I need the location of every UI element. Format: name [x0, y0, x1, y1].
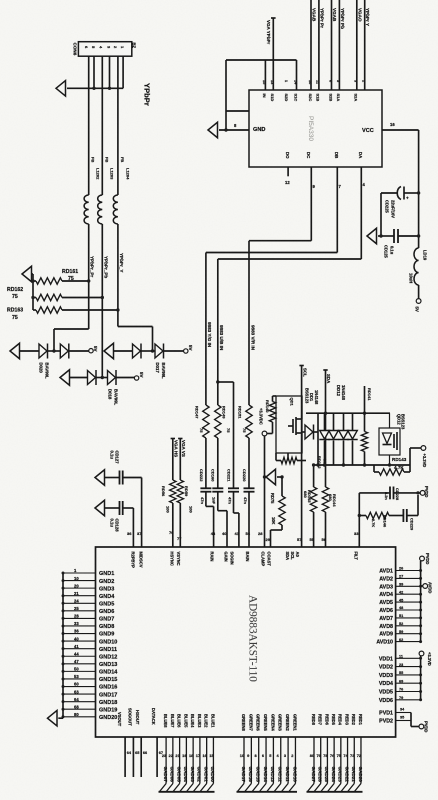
junction RD162: [31, 296, 104, 299]
capacitor CD125: [384, 229, 419, 258]
wire RD151 down: [248, 438, 250, 488]
capacitor CD229: [389, 491, 420, 531]
wire BAIN down: [246, 492, 251, 547]
pin labels U1 GND: [74, 568, 118, 721]
wire connector pin3: [101, 56, 103, 195]
node 9883_V/R_IN: [250, 325, 255, 351]
ground caps: [367, 228, 394, 244]
ground U2: [208, 122, 218, 138]
wire U1 AVD bus: [396, 561, 423, 643]
wire rail bottom: [314, 463, 410, 466]
node 9883_Y/G_IN: [207, 322, 212, 348]
junction CD225: [417, 191, 420, 194]
pin GREEN7 net GAD16: [245, 714, 253, 792]
connector CON6: [73, 42, 137, 57]
ground CON6: [56, 81, 123, 97]
resistor RD149: [215, 405, 231, 438]
junction UB branch: [216, 380, 233, 488]
wire cap bracket: [380, 193, 382, 236]
diode D017a: [133, 344, 142, 359]
wire DO stub: [285, 167, 290, 185]
ground CD127: [95, 470, 119, 486]
pin BLUE2 net GAD01: [200, 714, 208, 792]
resistor RD141: [361, 386, 372, 465]
inductor LD19: [409, 248, 428, 285]
wire RD149 down: [217, 438, 219, 488]
ground D020: [10, 343, 39, 359]
pin RED1 net GAD20: [354, 714, 362, 792]
node YPbPr_Pb: [103, 256, 108, 278]
wire blue bus: [159, 791, 215, 793]
transistor QD12: [379, 413, 406, 465]
wire net pair 2: [332, 0, 340, 90]
power 5V D017: [184, 345, 193, 353]
wire Y line mid: [88, 224, 90, 329]
node VGAB YPbPr Pb: [332, 8, 345, 29]
pin GREEN3 net GAD12: [274, 714, 282, 792]
power +3.3VD right: [410, 446, 427, 468]
resistor RD145: [303, 463, 317, 547]
power PVDD pvd: [411, 713, 429, 733]
wire HSYNC down: [169, 503, 174, 547]
pin BLUE6 net GAD05: [173, 714, 181, 792]
wire net pair 1: [311, 0, 319, 90]
wire DB to YG: [206, 167, 342, 405]
resistor RD147: [194, 405, 209, 438]
capacitor CD225: [381, 187, 419, 219]
pin BLUE8 net GAD07: [160, 714, 168, 792]
pin BLUE3 net GAD02: [193, 714, 201, 792]
wire net pair 3: [357, 0, 365, 90]
pin labels U1 outs: [117, 708, 156, 727]
resistor RD140: [265, 396, 276, 434]
wire U2 gnd bracket: [226, 60, 297, 130]
transistor QD1 box: [276, 396, 302, 453]
resistor RD56: [161, 480, 176, 513]
wire connector pin1: [88, 56, 90, 195]
wire U1 gnd bus: [58, 572, 95, 719]
node VGAB YPbPr Pr: [312, 8, 325, 28]
capacitor CD220: [242, 469, 255, 504]
wire clamp tri: [265, 476, 267, 478]
diode D020a: [39, 344, 48, 359]
label D020: [39, 363, 50, 380]
label VCC U2: [362, 128, 374, 134]
wire U2 in stub: [226, 110, 249, 112]
pin RED3 net GAD22: [341, 714, 349, 792]
pin BLUE7 net GAD06: [166, 714, 174, 792]
junction RD161: [31, 279, 90, 282]
wire DA to UB: [218, 167, 366, 405]
wire FILT: [354, 493, 361, 547]
wire U2 VCC: [382, 122, 419, 130]
pin RED8 net GAD27: [308, 714, 316, 792]
node 9883_U/B_IN: [219, 325, 224, 351]
wire D020 to 5V: [69, 350, 89, 352]
pin BLUE5 net GAD04: [180, 714, 188, 792]
pin labels U1 VDD: [379, 655, 403, 704]
ground D018: [60, 370, 88, 386]
power AVDD: [421, 582, 433, 593]
wire connector pin2: [93, 56, 95, 88]
ground clamp: [263, 469, 282, 485]
wire QD1 source: [276, 453, 288, 461]
pin RED6 net GAD25: [321, 714, 329, 792]
resistor RD59: [177, 480, 193, 513]
wire D017 to 5V: [164, 350, 184, 352]
pin RED4 net GAD23: [334, 714, 342, 792]
wire D020 junction: [48, 349, 61, 352]
diode D018a: [88, 370, 97, 385]
node VGA_YPbPr: [266, 18, 275, 90]
pin PVD2: [379, 716, 411, 725]
ground RD16x: [22, 266, 33, 310]
op-amp U2 PI5A330 box: [249, 90, 382, 167]
node YPbPr_Pr: [90, 256, 95, 277]
label D017: [155, 363, 166, 380]
wire 5V rail: [418, 130, 420, 248]
power 5V D020: [89, 346, 98, 353]
pin GREEN6 net GAD15: [252, 714, 260, 792]
pin PVD1: [379, 708, 411, 717]
pin GREEN4 net GAD13: [267, 714, 275, 792]
ground D017: [104, 343, 133, 359]
wire green bus: [237, 791, 298, 793]
IC U1 AD9883AKST-110: [96, 547, 396, 737]
pin GREEN5 net GAD14: [260, 714, 268, 792]
power 5V LD19: [415, 299, 421, 312]
inductor L1202: [84, 157, 100, 224]
pin GREEN2 net GAD11: [282, 714, 290, 792]
diode DD1 gate: [302, 413, 318, 465]
capacitor CD222: [199, 469, 212, 504]
wire DATACK: [157, 737, 163, 777]
inductor L1204: [113, 157, 130, 224]
wire Pr line mid: [117, 224, 119, 327]
wire RD147 down: [205, 438, 207, 488]
wire connector pin5: [117, 56, 119, 195]
wire RAIN jog: [206, 492, 216, 547]
power +3.3VD vdd: [419, 651, 432, 666]
wire rail top: [306, 412, 390, 415]
pin labels U2 top: [262, 80, 366, 101]
wire D018 to 5V: [116, 377, 134, 379]
wire COAST: [266, 525, 283, 547]
label DD12: [336, 385, 346, 401]
wire connector pin4: [109, 56, 111, 88]
pin labels U2 bottom: [285, 152, 363, 159]
junction RD163: [116, 308, 119, 311]
capacitor CD228: [359, 487, 420, 501]
diode D020b: [60, 344, 69, 359]
label DD1: [309, 390, 319, 405]
wire MIDSCV: [137, 478, 142, 548]
pin BLUE1 net GAD00: [207, 714, 215, 792]
pin RED7 net GAD26: [314, 714, 322, 792]
resistor RD146: [359, 512, 389, 528]
node SCL: [297, 366, 307, 548]
pin BLUE4 net GAD03: [187, 714, 195, 792]
resistor RD163: [7, 307, 118, 321]
wire SOGOUT: [133, 737, 139, 777]
wire connector pin6: [122, 56, 124, 88]
power 5V D018: [134, 372, 143, 380]
wire U1 VDD bus: [396, 656, 423, 701]
capacitor CD128: [110, 501, 134, 532]
diode pair DD1: [319, 413, 338, 465]
wire VSYNC down: [177, 503, 182, 547]
pin labels U1 AVD: [376, 567, 403, 646]
junction pin4-gnd: [108, 87, 111, 90]
label D018: [108, 389, 119, 406]
power PVDD filt: [420, 486, 429, 497]
pin RED2 net GAD21: [348, 714, 356, 792]
transistor QD1 fet: [288, 396, 302, 453]
resistor RD151: [238, 405, 253, 438]
label YPbPr: [143, 83, 152, 106]
wire Pr to D017: [118, 327, 155, 353]
junction RD75: [280, 475, 283, 478]
resistor RD162: [7, 287, 102, 301]
inductor L1203: [98, 157, 115, 224]
junction CD125: [379, 234, 420, 237]
wire HSOUT: [141, 737, 147, 777]
capacitor CD221: [226, 469, 239, 504]
label GND U2: [253, 127, 265, 133]
wire clamp: [258, 436, 265, 547]
wire D018 junction: [96, 376, 108, 379]
ground U1: [48, 710, 58, 726]
ground CD128: [95, 500, 119, 516]
resistor RD75: [270, 477, 285, 525]
diode D018b: [108, 370, 117, 385]
capacitor CD127: [110, 451, 142, 485]
wire GAIN jog: [218, 492, 227, 547]
diode D017b: [155, 344, 164, 359]
junction pin2-gnd: [92, 87, 95, 90]
wire red bus: [307, 791, 363, 793]
node VGA_VS: [178, 439, 186, 481]
wire U2 gnd pin8: [219, 123, 249, 132]
node YPbPr_Y: [119, 253, 124, 272]
diode pair DD12: [338, 413, 357, 465]
pin RED5 net GAD24: [328, 714, 336, 792]
node VGAO YPbPr Y: [357, 8, 370, 26]
wire Y to D020: [54, 329, 89, 351]
wire SOGIN jog: [234, 492, 240, 547]
label QD1: [290, 398, 295, 407]
pin GREEN1 net GAD10: [289, 714, 297, 792]
capacitor CD160: [211, 469, 224, 505]
node SDA: [323, 370, 331, 487]
wire Pb line mid: [101, 224, 103, 378]
label PI5A330: [307, 116, 314, 141]
wire DC to VR: [249, 167, 316, 405]
power PVDD avd: [420, 553, 430, 564]
wire LD19 to 5V: [418, 285, 420, 299]
resistor RD143: [374, 457, 410, 475]
resistor RD142: [276, 456, 328, 469]
node VGA_HS: [171, 439, 179, 481]
resistor RD144: [322, 487, 338, 547]
pin GREEN8 net GAD17: [238, 714, 246, 792]
power +3.3VDC QH1: [259, 408, 267, 436]
wire R2PBYP: [127, 508, 133, 547]
pin labels U1 top: [130, 552, 358, 569]
label BSS123 QD1: [304, 388, 309, 404]
resistor RD161: [33, 269, 89, 284]
wire VSOUT: [125, 737, 132, 777]
label AD9883AKST-110: [247, 595, 259, 682]
